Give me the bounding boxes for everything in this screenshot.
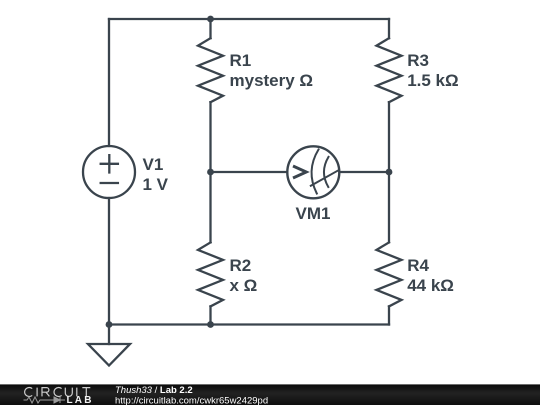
svg-text:V1: V1 (143, 155, 164, 174)
wire: VM1 left lead (211, 171, 287, 173)
resistor R3 body (377, 38, 402, 102)
voltmeter VM1 scale arc 2 (324, 157, 329, 187)
resistor R2 body (198, 242, 223, 306)
wire: bottom rail (109, 323, 389, 325)
resistor R4 body (377, 242, 402, 306)
voltage source V1 plus sign (101, 155, 118, 172)
voltmeter VM1 circle (287, 146, 339, 198)
svg-text:1 V: 1 V (143, 175, 169, 194)
svg-text:LAB: LAB (67, 395, 94, 405)
svg-text:R3: R3 (407, 51, 429, 70)
svg-text:VM1: VM1 (296, 204, 331, 223)
footer logo CIRCUIT (drawn as thin outline paths) (25, 388, 91, 397)
svg-text:http://circuitlab.com/cwkr65w2: http://circuitlab.com/cwkr65w2429pd (115, 396, 268, 405)
svg-text:1.5 kΩ: 1.5 kΩ (407, 71, 458, 90)
wire: right rail between R3 and R4 (388, 102, 390, 242)
svg-text:Thush33 / Lab 2.2: Thush33 / Lab 2.2 (115, 385, 193, 396)
wire: R1 top lead (209, 19, 211, 38)
wire: left rail top (V1 top to top-left corner) (108, 19, 110, 146)
svg-text:R4: R4 (407, 256, 429, 275)
svg-text:R2: R2 (230, 256, 252, 275)
voltmeter VM1 scale arc 1 (312, 150, 319, 194)
svg-text:R1: R1 (230, 51, 252, 70)
voltmeter VM1 greater-than mark (293, 166, 306, 178)
voltmeter VM1 needle (311, 171, 338, 186)
svg-text:44 kΩ: 44 kΩ (407, 276, 454, 295)
junction dot: top rail / R1 (207, 16, 214, 23)
wire: R3 top lead (388, 19, 390, 38)
voltage source V1 circle (83, 146, 135, 198)
junction dot: middle rail / VM1 (207, 169, 214, 176)
wire: ground stub (108, 325, 110, 345)
wire: R4 bottom lead (388, 306, 390, 324)
resistor R1 body (198, 38, 223, 102)
wire: R2 bottom lead (209, 306, 211, 324)
footer bar (0, 384, 540, 405)
wire: middle rail between R1 and R2 (209, 102, 211, 242)
svg-text:mystery Ω: mystery Ω (230, 71, 314, 90)
voltage source V1 minus sign (101, 182, 118, 184)
junction dot: bottom rail / ground (106, 321, 113, 328)
wire: VM1 right lead (340, 171, 390, 173)
footer logo doodle (resistor + diode wire) (24, 397, 66, 403)
ground (88, 344, 130, 366)
junction dot: right rail / VM1 (386, 169, 393, 176)
wire: left rail bottom (V1 bottom to bottom rail) (108, 198, 110, 325)
svg-text:x Ω: x Ω (230, 276, 258, 295)
wire: top rail (109, 18, 389, 20)
junction dot: bottom rail / R2 (207, 321, 214, 328)
